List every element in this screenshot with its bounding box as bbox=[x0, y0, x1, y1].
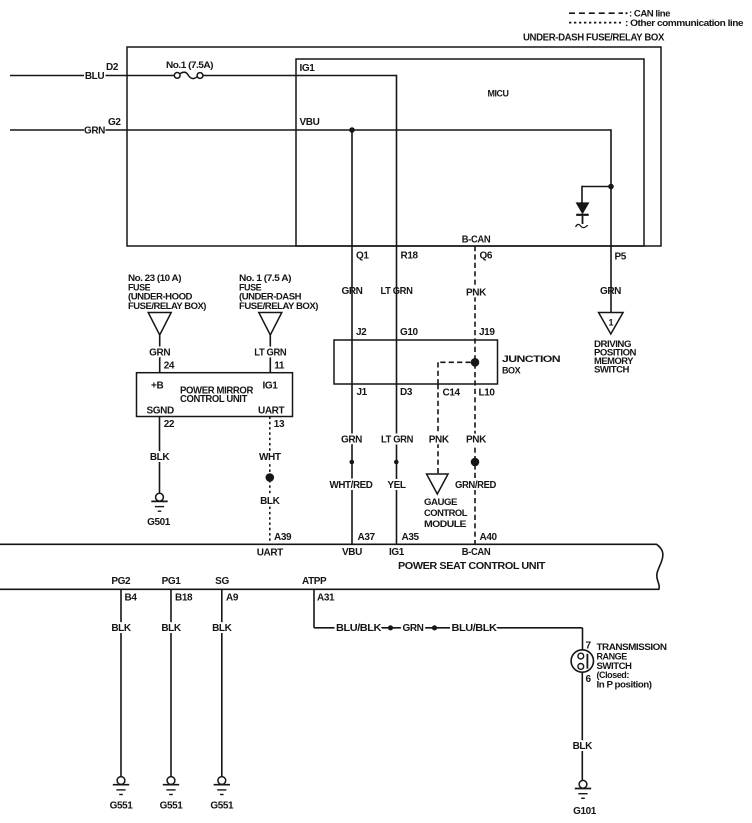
svg-text:BLU/BLK: BLU/BLK bbox=[452, 623, 498, 634]
splice dot ATPP 2 bbox=[432, 625, 437, 630]
svg-text:G501: G501 bbox=[147, 517, 171, 528]
wire vertical to R18 bbox=[396, 75, 398, 246]
splice dot L10 wire bbox=[471, 458, 480, 467]
svg-text:G551: G551 bbox=[160, 800, 184, 811]
wire fuse No.23 to power mirror control unit bbox=[159, 335, 161, 373]
svg-text:G551: G551 bbox=[210, 800, 234, 811]
svg-text:IG1: IG1 bbox=[263, 381, 279, 392]
svg-text:BOX: BOX bbox=[502, 365, 521, 375]
svg-text:D3: D3 bbox=[400, 387, 413, 398]
wire Q1 to J2 bbox=[351, 246, 353, 544]
svg-text:A35: A35 bbox=[402, 532, 420, 543]
svg-text:R18: R18 bbox=[401, 251, 419, 262]
svg-text:+B: +B bbox=[151, 381, 163, 392]
ground G551 (SG) bbox=[218, 777, 226, 785]
svg-text:13: 13 bbox=[274, 419, 285, 430]
svg-text:6: 6 bbox=[586, 674, 592, 685]
svg-text:GRN: GRN bbox=[341, 435, 362, 446]
under-dash fuse/relay box outline bbox=[127, 47, 661, 246]
wire BLU into fuse box bbox=[106, 75, 175, 77]
wire PG2 to G551 bbox=[120, 589, 122, 776]
ground G101 bbox=[579, 780, 587, 788]
svg-text:24: 24 bbox=[164, 361, 175, 372]
wire GRN into box to P5 corner bbox=[106, 129, 612, 131]
splice dot D3 wire bbox=[394, 460, 399, 465]
svg-text:GRN/RED: GRN/RED bbox=[455, 480, 496, 491]
svg-text:ATPP: ATPP bbox=[302, 576, 327, 587]
svg-text:IG1: IG1 bbox=[389, 547, 405, 558]
svg-text:A40: A40 bbox=[480, 532, 498, 543]
legend other-communication sample (dotted) bbox=[569, 22, 621, 24]
svg-text:MICU: MICU bbox=[488, 88, 509, 98]
svg-text:No.1 (7.5A): No.1 (7.5A) bbox=[166, 60, 214, 70]
svg-text:L10: L10 bbox=[479, 387, 496, 398]
svg-text:Q1: Q1 bbox=[356, 251, 369, 262]
svg-text:YEL: YEL bbox=[387, 480, 406, 491]
label GRN was above; driving position memory switch triangle bbox=[599, 313, 624, 335]
wire transmission range switch to G101 bbox=[581, 672, 583, 780]
svg-text:PNK: PNK bbox=[429, 435, 450, 446]
svg-text:WHT: WHT bbox=[259, 452, 281, 463]
svg-text:D2: D2 bbox=[106, 62, 119, 73]
svg-text:A31: A31 bbox=[317, 593, 335, 604]
svg-text:C14: C14 bbox=[443, 387, 461, 398]
svg-text:J1: J1 bbox=[357, 387, 368, 398]
svg-text:POWER SEAT CONTROL UNIT: POWER SEAT CONTROL UNIT bbox=[398, 561, 545, 572]
svg-text:SG: SG bbox=[215, 576, 229, 587]
svg-text:J2: J2 bbox=[356, 327, 367, 338]
wire ATPP down and right to transmission range switch bbox=[313, 589, 315, 628]
dashed branch to C14 bbox=[438, 361, 471, 363]
svg-text:BLK: BLK bbox=[573, 741, 594, 752]
svg-text:Q6: Q6 bbox=[480, 251, 493, 262]
gauge control module triangle bbox=[427, 474, 449, 494]
svg-text:CONTROL UNIT: CONTROL UNIT bbox=[180, 394, 247, 405]
svg-text:22: 22 bbox=[164, 419, 175, 430]
ground G501 bbox=[156, 493, 164, 501]
splice dot J1 wire bbox=[350, 460, 355, 465]
svg-text:SGND: SGND bbox=[147, 405, 174, 416]
svg-text:PNK: PNK bbox=[466, 435, 487, 446]
JUNCTION BOX outline bbox=[334, 340, 498, 384]
svg-text:GRN: GRN bbox=[402, 623, 423, 634]
svg-text:J19: J19 bbox=[479, 327, 495, 338]
wire GRN stub from left bbox=[10, 129, 84, 131]
svg-text:VBU: VBU bbox=[300, 117, 320, 128]
splice dot ATPP 1 bbox=[388, 625, 393, 630]
splice dot WHT/BLK bbox=[266, 473, 275, 482]
UART dotted communication wire 13 to A39 bbox=[269, 417, 271, 545]
dashed CAN wire C14 to gauge control module bbox=[437, 384, 439, 474]
CAN bus dashed wire Q6 to junction box bbox=[474, 246, 476, 544]
wire BLU stub from left bbox=[10, 75, 84, 77]
MICU box outline bbox=[296, 59, 644, 246]
svg-text:G2: G2 bbox=[108, 117, 121, 128]
svg-text:BLU: BLU bbox=[85, 71, 105, 82]
svg-text:UART: UART bbox=[257, 548, 283, 559]
wire P5 to driving position memory switch bbox=[610, 246, 612, 313]
svg-text:G101: G101 bbox=[573, 806, 597, 817]
svg-text:B-CAN: B-CAN bbox=[462, 547, 491, 558]
transmission range switch symbol bbox=[571, 650, 593, 672]
svg-text:LT GRN: LT GRN bbox=[254, 347, 286, 358]
svg-text:GRN: GRN bbox=[149, 347, 170, 358]
svg-text:: Other communication line: : Other communication line bbox=[625, 18, 744, 28]
svg-text:GRN: GRN bbox=[84, 125, 105, 136]
wire diode branch bbox=[582, 186, 611, 188]
svg-text:B18: B18 bbox=[175, 593, 193, 604]
svg-text:LT GRN: LT GRN bbox=[381, 435, 413, 446]
fuse No.1 triangle symbol bbox=[259, 313, 282, 336]
wire fuse No.1 to power mirror control unit bbox=[269, 335, 271, 373]
svg-text:VBU: VBU bbox=[342, 547, 362, 558]
POWER SEAT CONTROL UNIT box (torn right edge) bbox=[0, 544, 663, 589]
svg-text:G551: G551 bbox=[110, 800, 134, 811]
svg-text:IG1: IG1 bbox=[300, 63, 316, 74]
svg-text:WHT/RED: WHT/RED bbox=[330, 480, 373, 491]
svg-text:In P position): In P position) bbox=[597, 679, 652, 689]
svg-text:PG2: PG2 bbox=[111, 576, 131, 587]
svg-text:CONTROL: CONTROL bbox=[424, 508, 468, 518]
svg-text:JUNCTION: JUNCTION bbox=[502, 354, 560, 364]
wire SGND to G501 bbox=[159, 417, 161, 494]
wire vertical to Q1 bbox=[351, 130, 353, 246]
svg-text:UART: UART bbox=[258, 405, 284, 416]
wire PG1 to G551 bbox=[170, 589, 172, 776]
svg-text:BLK: BLK bbox=[150, 452, 171, 463]
svg-text:A39: A39 bbox=[274, 532, 292, 543]
svg-text:A9: A9 bbox=[226, 593, 239, 604]
junction dot diode branch bbox=[608, 184, 614, 190]
wire fuse to R18 corner bbox=[203, 75, 397, 77]
svg-text:BLK: BLK bbox=[161, 623, 182, 634]
svg-text:P5: P5 bbox=[615, 252, 627, 263]
ground G551 (PG1) bbox=[167, 777, 175, 785]
junction dot VBU/Q1 bbox=[349, 127, 355, 133]
junction dot B-CAN in junction box bbox=[471, 358, 480, 367]
svg-text:BLU/BLK: BLU/BLK bbox=[336, 623, 382, 634]
svg-text:11: 11 bbox=[274, 361, 285, 372]
svg-text:B-CAN: B-CAN bbox=[462, 234, 491, 245]
svg-text:GAUGE: GAUGE bbox=[424, 497, 457, 507]
svg-text:UNDER-DASH FUSE/RELAY BOX: UNDER-DASH FUSE/RELAY BOX bbox=[523, 33, 665, 44]
svg-text:A37: A37 bbox=[358, 532, 376, 543]
ground G551 (PG2) bbox=[117, 777, 125, 785]
svg-text:BLK: BLK bbox=[111, 623, 132, 634]
svg-text:BLK: BLK bbox=[260, 496, 281, 507]
svg-text:FUSE/RELAY BOX): FUSE/RELAY BOX) bbox=[128, 301, 206, 311]
svg-text:G10: G10 bbox=[400, 327, 419, 338]
wire vertical to P5 bbox=[610, 129, 612, 246]
fuse No.23 triangle symbol bbox=[148, 313, 171, 336]
legend CAN line sample (dashed) bbox=[569, 12, 623, 14]
wire R18 to G10 bbox=[396, 246, 398, 544]
svg-text:FUSE/RELAY BOX): FUSE/RELAY BOX) bbox=[239, 301, 318, 311]
svg-text:PNK: PNK bbox=[466, 288, 487, 299]
svg-text:B4: B4 bbox=[125, 593, 138, 604]
svg-text:PG1: PG1 bbox=[162, 576, 182, 587]
diode (to ground) symbol bbox=[577, 203, 589, 213]
svg-text:1: 1 bbox=[609, 317, 614, 327]
svg-text:MODULE: MODULE bbox=[424, 519, 466, 529]
wire SG to G551 bbox=[221, 589, 223, 776]
fuse No.1 (7.5A) symbol bbox=[174, 73, 180, 79]
svg-text:SWITCH: SWITCH bbox=[594, 364, 629, 374]
POWER MIRROR CONTROL UNIT box bbox=[137, 373, 293, 417]
svg-text:BLK: BLK bbox=[212, 623, 233, 634]
